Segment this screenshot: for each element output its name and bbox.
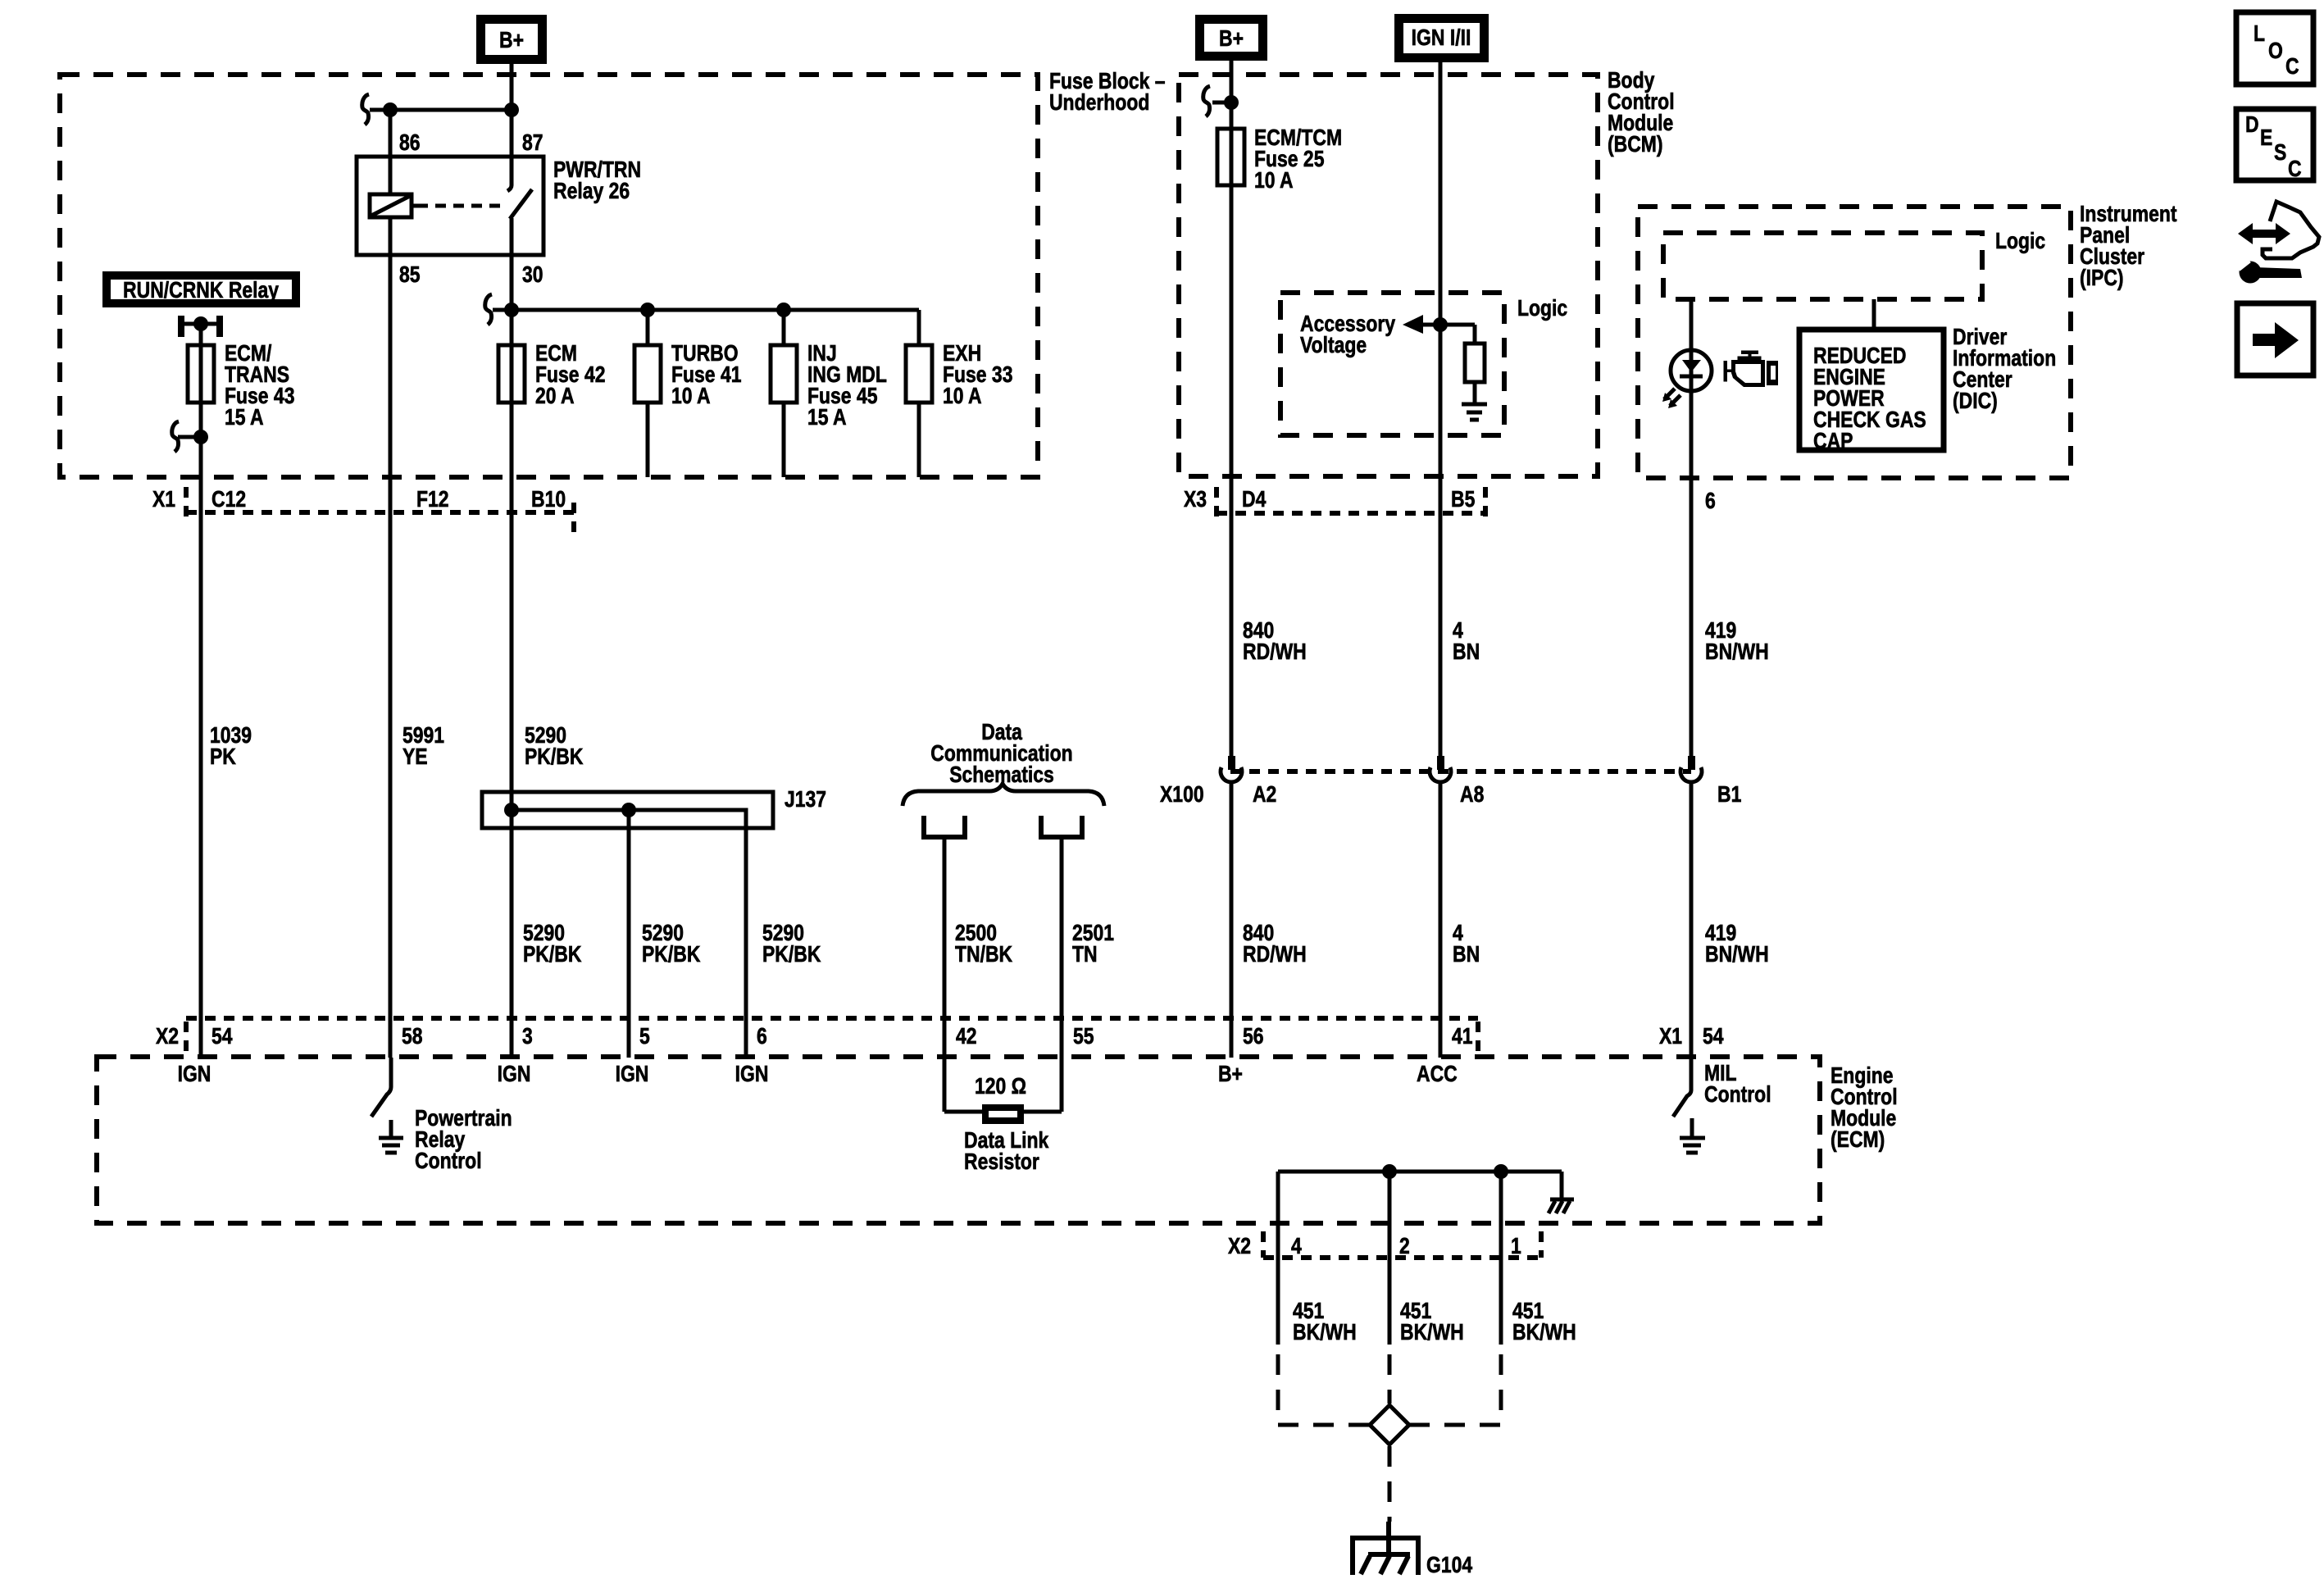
Powertrain Relay Control label xyxy=(415,1106,512,1174)
svg-text:41: 41 xyxy=(1452,1024,1473,1049)
wire 5991 YE label xyxy=(402,723,444,770)
svg-text:(DIC): (DIC) xyxy=(1953,389,1998,414)
X100 cup B1 xyxy=(1680,767,1702,782)
dashed wire splice bus right xyxy=(1409,1423,1501,1427)
wire resistor to ground xyxy=(1473,382,1477,403)
svg-text:A8: A8 xyxy=(1460,782,1484,808)
wire 1039 PK label xyxy=(210,723,252,770)
svg-text:B1: B1 xyxy=(1717,782,1741,808)
svg-text:BN/WH: BN/WH xyxy=(1705,942,1769,967)
svg-text:(ECM): (ECM) xyxy=(1831,1127,1885,1153)
junction node 86 xyxy=(383,102,398,117)
svg-text:3: 3 xyxy=(522,1024,533,1049)
junction node accessory tap xyxy=(1433,317,1448,332)
svg-text:O: O xyxy=(2268,39,2283,64)
svg-text:PK/BK: PK/BK xyxy=(642,942,701,967)
wire to fuse 43 xyxy=(199,324,203,345)
relay coil-contact dashed link xyxy=(417,204,507,208)
fuse 43 label xyxy=(225,341,294,430)
svg-text:IGN I/II: IGN I/II xyxy=(1412,25,1471,51)
splice pack J137 box xyxy=(482,792,773,828)
svg-text:Underhood: Underhood xyxy=(1049,90,1149,116)
brace to data communication schematics xyxy=(903,784,1104,806)
svg-text:J137: J137 xyxy=(785,787,826,812)
junction node bus-INJ fuse xyxy=(776,303,791,317)
connector X1 row dotted xyxy=(186,487,574,534)
wire 419 BN/WH to ECM MIL xyxy=(1690,782,1694,1090)
wire ground pin 4 xyxy=(1276,1172,1280,1345)
accessory voltage arrow xyxy=(1403,315,1475,334)
wire 30 down from relay xyxy=(510,218,514,810)
relay switch blade xyxy=(510,189,532,219)
resistor 120 ohm data link xyxy=(985,1108,1021,1121)
svg-text:BK/WH: BK/WH xyxy=(1293,1320,1357,1345)
svg-text:15 A: 15 A xyxy=(807,405,847,430)
svg-text:C12: C12 xyxy=(211,487,246,512)
power label IGN I/II xyxy=(1394,14,1489,62)
wire pin 5 xyxy=(627,810,631,1058)
svg-text:B+: B+ xyxy=(1219,26,1244,52)
Engine Control Module dashed box xyxy=(97,1057,1820,1223)
MIL control ground xyxy=(1680,1118,1705,1153)
svg-text:1: 1 xyxy=(1511,1234,1521,1259)
wire 86 down into relay xyxy=(389,110,393,194)
wire 2500 TN/BK label xyxy=(955,921,1013,967)
clip at relay 86 branch xyxy=(362,94,369,125)
svg-text:56: 56 xyxy=(1243,1024,1264,1049)
wire 840 RD/WH upper label xyxy=(1243,618,1307,665)
svg-text:54: 54 xyxy=(1703,1024,1724,1049)
svg-text:C: C xyxy=(2285,54,2299,80)
svg-text:E: E xyxy=(2260,125,2272,151)
svg-text:BN: BN xyxy=(1453,639,1480,665)
svg-text:BN: BN xyxy=(1453,942,1480,967)
svg-text:58: 58 xyxy=(402,1024,423,1049)
svg-text:15 A: 15 A xyxy=(225,405,264,430)
wire TURBO fuse drop xyxy=(646,310,650,345)
svg-text:10 A: 10 A xyxy=(671,384,711,409)
Data Communication Schematics label xyxy=(930,720,1072,788)
dashed wire pin 2 to splice xyxy=(1388,1354,1392,1404)
power label B+ (left) xyxy=(476,15,547,64)
junction node bus-TURBO fuse xyxy=(640,303,655,317)
svg-text:B10: B10 xyxy=(531,487,566,512)
Instrument Panel Cluster label xyxy=(2080,202,2177,291)
wire 5290 PK/BK label (pin 6) xyxy=(762,921,821,967)
wire 2501 TN xyxy=(1060,837,1064,1112)
svg-text:RD/WH: RD/WH xyxy=(1243,639,1307,665)
svg-text:85: 85 xyxy=(399,262,421,288)
RUN/CRNK Relay label box xyxy=(102,271,300,307)
fuse F33 EXH xyxy=(906,345,932,403)
wire B+ to BCM fuse 25 xyxy=(1230,61,1234,767)
svg-text:6: 6 xyxy=(757,1024,767,1049)
wire 451 BK/WH label (pin 2) xyxy=(1400,1299,1464,1345)
svg-text:42: 42 xyxy=(956,1024,977,1049)
svg-text:X2: X2 xyxy=(1228,1234,1251,1259)
wire EXH fuse drop xyxy=(917,310,921,345)
X100 cup A8 xyxy=(1430,767,1451,782)
ground G104 symbol xyxy=(1350,1522,1421,1575)
junction node bus-ECM fuse xyxy=(504,303,519,317)
connector X3 row dotted xyxy=(1217,487,1485,520)
check engine icon xyxy=(1724,351,1779,388)
svg-text:6: 6 xyxy=(1705,489,1716,514)
Data Link Resistor label xyxy=(964,1128,1049,1175)
component double-arrow icon xyxy=(2238,223,2290,244)
REDUCED ENGINE POWER box xyxy=(1799,330,1944,450)
fuse supply bus xyxy=(493,308,919,312)
resistor BCM logic pull-down xyxy=(1465,344,1485,382)
svg-text:PK/BK: PK/BK xyxy=(525,744,584,770)
svg-text:PK/BK: PK/BK xyxy=(523,942,582,967)
svg-text:X3: X3 xyxy=(1184,487,1207,512)
link clip to wire xyxy=(1212,101,1231,105)
J137 internal bus xyxy=(512,810,746,828)
X100 terminal stub B1 xyxy=(1688,756,1695,770)
REDUCED ENGINE POWER text xyxy=(1813,344,1926,454)
svg-text:X1: X1 xyxy=(1659,1024,1682,1049)
svg-text:Control: Control xyxy=(1704,1082,1771,1108)
svg-text:Resistor: Resistor xyxy=(964,1149,1039,1175)
MIL control switch blade xyxy=(1673,1090,1691,1117)
Fuse Block - Underhood label xyxy=(1049,69,1166,116)
ground BCM logic xyxy=(1462,404,1487,420)
svg-text:2: 2 xyxy=(1399,1234,1410,1259)
svg-text:TN/BK: TN/BK xyxy=(955,942,1013,967)
svg-text:10 A: 10 A xyxy=(943,384,982,409)
svg-text:RUN/CRNK Relay: RUN/CRNK Relay xyxy=(123,278,280,303)
wire EXH fuse to edge xyxy=(917,403,921,477)
wire B+ to relay pin 87 xyxy=(507,64,512,191)
wire 4 BN lower label xyxy=(1453,921,1480,967)
wire 5290 PK/BK label (pin 3) xyxy=(523,921,582,967)
svg-text:Control: Control xyxy=(415,1149,482,1174)
Engine Control Module label xyxy=(1831,1063,1898,1153)
svg-text:Logic: Logic xyxy=(1517,296,1567,321)
svg-text:PK: PK xyxy=(210,744,236,770)
wire 5991 YE coil to ECM pin 58 xyxy=(389,217,393,1058)
svg-text:IGN: IGN xyxy=(178,1062,211,1087)
svg-text:TN: TN xyxy=(1072,942,1098,967)
Instrument Panel Cluster dashed box xyxy=(1638,207,2071,478)
wire INJ fuse drop xyxy=(782,310,786,345)
svg-text:(IPC): (IPC) xyxy=(2080,266,2124,291)
fuse F45 INJ ING MDL xyxy=(771,345,797,403)
svg-text:RD/WH: RD/WH xyxy=(1243,942,1307,967)
clip at B+ entry xyxy=(1203,86,1210,116)
fuse F42 ECM xyxy=(498,345,525,403)
svg-text:55: 55 xyxy=(1073,1024,1094,1049)
wire logic to LED xyxy=(1690,299,1694,767)
X100 terminal stub A8 xyxy=(1437,756,1444,770)
svg-text:X2: X2 xyxy=(156,1024,179,1049)
svg-text:L: L xyxy=(2254,21,2265,47)
connector X100 labels xyxy=(1160,782,1741,808)
svg-text:(BCM): (BCM) xyxy=(1608,132,1663,157)
clip below fuse 43 xyxy=(172,421,179,452)
svg-text:D4: D4 xyxy=(1242,487,1267,512)
svg-text:87: 87 xyxy=(522,130,543,156)
dashed wire pin 4 to splice xyxy=(1276,1354,1280,1425)
junction node fuse 25 feed xyxy=(1224,95,1239,110)
svg-text:YE: YE xyxy=(402,744,428,770)
svg-text:CAP: CAP xyxy=(1813,429,1853,454)
svg-text:54: 54 xyxy=(211,1024,233,1049)
wire 419 BN/WH lower label xyxy=(1705,921,1769,967)
svg-text:B+: B+ xyxy=(1218,1062,1243,1087)
svg-text:IGN: IGN xyxy=(735,1062,769,1087)
fuse 41 label xyxy=(671,341,741,409)
LOC icon box xyxy=(2236,12,2313,84)
svg-text:B5: B5 xyxy=(1451,487,1475,512)
clip at fuse bus xyxy=(485,294,492,325)
splice diamond xyxy=(1370,1405,1409,1445)
svg-text:X100: X100 xyxy=(1160,782,1204,808)
wire 840 RD/WH to ECM 56 xyxy=(1230,782,1234,1058)
Body Control Module dashed box xyxy=(1179,75,1598,476)
relay terminal bracket xyxy=(178,316,223,337)
wire 451 BK/WH label (pin 1) xyxy=(1512,1299,1576,1345)
wire 4 BN to ECM 41 xyxy=(1439,782,1443,1058)
Accessory Voltage label xyxy=(1300,312,1396,358)
svg-text:PK/BK: PK/BK xyxy=(762,942,821,967)
dashed wire splice to G104 xyxy=(1388,1446,1392,1522)
PWR/TRN Relay 26 label xyxy=(553,157,641,204)
svg-text:IGN: IGN xyxy=(616,1062,649,1087)
svg-text:BK/WH: BK/WH xyxy=(1512,1320,1576,1345)
wire branch to pin 86 xyxy=(370,108,512,112)
DLC terminal cup 2501 xyxy=(1041,816,1082,837)
indicator LED circle xyxy=(1671,350,1712,391)
wire 451 BK/WH label (pin 4) xyxy=(1293,1299,1357,1345)
connector X100 row dotted xyxy=(1230,769,1691,774)
svg-text:86: 86 xyxy=(399,130,421,156)
Fuse Block - Underhood dashed box xyxy=(60,75,1038,477)
svg-text:D: D xyxy=(2245,112,2259,138)
svg-text:IGN: IGN xyxy=(498,1062,531,1087)
fuse F25 ECM/TCM xyxy=(1217,129,1244,185)
junction node ground 2 xyxy=(1382,1164,1397,1179)
svg-text:S: S xyxy=(2274,140,2286,166)
svg-text:X1: X1 xyxy=(152,487,175,512)
fuse F43 ECM/TRANS xyxy=(188,345,214,403)
dashed wire pin 1 to splice xyxy=(1499,1354,1503,1425)
wrench icon xyxy=(2235,256,2302,284)
Body Control Module label xyxy=(1608,68,1675,157)
IPC Logic dashed box xyxy=(1663,233,1982,299)
wire 1039 PK xyxy=(199,403,203,1058)
svg-text:20 A: 20 A xyxy=(535,384,575,409)
wire pin 3 xyxy=(510,810,514,1058)
svg-text:BN/WH: BN/WH xyxy=(1705,639,1769,665)
powertrain relay control switch blade xyxy=(371,1058,391,1117)
svg-text:Relay 26: Relay 26 xyxy=(553,179,630,204)
junction node 87 xyxy=(504,102,519,117)
wire 55 to resistor xyxy=(1022,1110,1062,1114)
svg-text:B+: B+ xyxy=(499,28,524,53)
fuse 42 label xyxy=(535,341,605,409)
DLC terminal cup 2500 xyxy=(924,816,965,837)
svg-text:5: 5 xyxy=(639,1024,650,1049)
svg-text:Logic: Logic xyxy=(1995,229,2045,254)
wire 4 BN upper label xyxy=(1453,618,1480,665)
svg-text:Voltage: Voltage xyxy=(1300,333,1367,358)
junction node J137 pin3 xyxy=(504,803,519,817)
short link clip to wire xyxy=(178,435,201,439)
LED diode symbol xyxy=(1680,360,1703,376)
wire INJ fuse to edge xyxy=(782,403,786,477)
component outline icon xyxy=(2263,202,2319,258)
wire TURBO fuse to edge xyxy=(646,403,650,477)
wire ground pin 2 xyxy=(1388,1172,1392,1345)
fuse F41 TURBO xyxy=(634,345,661,403)
wire 840 RD/WH lower label xyxy=(1243,921,1307,967)
wire logic to message box xyxy=(1872,299,1876,330)
LED emission arrows xyxy=(1662,389,1680,408)
connector X1 labels xyxy=(152,487,566,512)
X100 terminal stub A2 xyxy=(1228,756,1235,770)
chassis ground symbol xyxy=(1549,1199,1574,1213)
connector X2 ground row dotted xyxy=(1263,1231,1541,1258)
junction node J137 pin5 xyxy=(621,803,636,817)
junction node ground 1 xyxy=(1494,1164,1508,1179)
svg-text:G104: G104 xyxy=(1426,1553,1473,1578)
svg-text:BK/WH: BK/WH xyxy=(1400,1320,1464,1345)
connector X2 row dotted xyxy=(186,1018,1478,1058)
wire to BCM resistor xyxy=(1473,325,1477,344)
wire 2501 TN label xyxy=(1072,921,1114,967)
junction node below fuse 43 xyxy=(193,430,208,444)
DESC icon box xyxy=(2236,109,2313,182)
fuse 45 label xyxy=(807,341,887,430)
fuse 25 label xyxy=(1254,125,1342,193)
wire 419 BN/WH upper label xyxy=(1705,618,1769,665)
svg-text:ACC: ACC xyxy=(1417,1062,1458,1087)
dashed wire splice bus left xyxy=(1278,1423,1370,1427)
svg-text:A2: A2 xyxy=(1253,782,1276,808)
connector X3 labels xyxy=(1184,487,1475,512)
relay PWR/TRN Relay 26 box xyxy=(357,157,543,255)
BCM Logic dashed box xyxy=(1280,293,1504,435)
wire bus to chassis ground xyxy=(1560,1172,1564,1198)
fuse 33 label xyxy=(943,341,1012,409)
svg-text:4: 4 xyxy=(1291,1234,1302,1259)
Driver Information Center label xyxy=(1953,325,2056,414)
svg-text:30: 30 xyxy=(522,262,543,288)
wire 5290 PK/BK label xyxy=(525,723,584,770)
svg-text:F12: F12 xyxy=(416,487,449,512)
wire 2500 TN/BK xyxy=(943,837,947,1112)
X100 cup A2 xyxy=(1221,767,1242,782)
ECM ground bus xyxy=(1278,1170,1562,1174)
MIL Control label xyxy=(1704,1061,1771,1108)
svg-text:10 A: 10 A xyxy=(1254,168,1294,193)
svg-text:C: C xyxy=(2288,157,2302,182)
wire pin 6 xyxy=(744,828,748,1058)
powertrain relay control ground xyxy=(379,1120,403,1153)
wire 5290 PK/BK label (pin 5) xyxy=(642,921,701,967)
wire 42 to resistor xyxy=(944,1110,984,1114)
wire ground pin 1 xyxy=(1499,1172,1503,1345)
arrow icon box xyxy=(2237,303,2313,375)
power label B+ (right) xyxy=(1195,15,1267,61)
svg-text:120 Ω: 120 Ω xyxy=(975,1074,1026,1099)
relay coil xyxy=(370,194,417,217)
wire IGN I/II to BCM xyxy=(1439,62,1443,767)
